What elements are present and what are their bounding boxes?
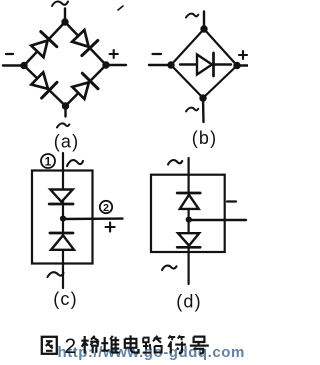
junction dot output (d)	[186, 217, 192, 223]
wire diamond edge bottom-left (b)	[171, 65, 203, 98]
glyph dian (electric)	[125, 335, 139, 352]
caption figure 2 title: hand-drawn CJK glyphs	[42, 335, 209, 353]
svg-text:(d): (d)	[176, 292, 202, 312]
label ~ (top of b)	[186, 14, 198, 18]
junction dot AC-bottom (b)	[199, 94, 206, 101]
glyph hao (number)	[190, 337, 209, 354]
junction dot plus (b)	[233, 62, 240, 69]
svg-text:(b): (b)	[192, 128, 218, 148]
wire arm lower-left	[24, 66, 66, 107]
wire diamond edge bottom-right (b)	[203, 66, 237, 99]
diode D6 (upper, points down)	[50, 190, 72, 202]
label minus (d)	[227, 200, 236, 202]
junction dot output (c)	[60, 216, 66, 222]
wire plus output (c)	[63, 217, 123, 220]
svg-text:2: 2	[103, 202, 109, 214]
svg-text:1: 1	[45, 156, 52, 168]
label minus (a)	[6, 53, 13, 55]
diode D5 (inside b) wire	[180, 63, 231, 65]
svg-text:(c): (c)	[53, 289, 78, 309]
box outline (c)	[32, 171, 93, 264]
wire diamond edge top-left (b)	[171, 29, 204, 65]
label ~ (top of c)	[67, 160, 83, 166]
label plus (b)	[239, 51, 247, 59]
wire vertical through (c)	[62, 153, 64, 288]
label ~ (bottom of b)	[186, 108, 198, 112]
wire plus lead (a)	[106, 64, 126, 66]
label ~ (bottom of d)	[162, 266, 177, 270]
svg-text:2: 2	[65, 335, 77, 358]
wire AC-bottom lead (a)	[64, 106, 66, 117]
wire vertical through (d)	[188, 158, 190, 284]
wire minus lead (b)	[149, 64, 171, 66]
wire plus lead (b)	[237, 64, 248, 66]
junction dot minus (a)	[20, 62, 27, 69]
diode D2 (upper-right arm, points to + node)	[70, 28, 98, 55]
label minus (b)	[153, 53, 162, 55]
label plus (c)	[106, 222, 115, 231]
junction dot AC-top (a)	[61, 18, 68, 25]
glyph dui (stack)	[101, 336, 119, 353]
diode D3 (lower-left arm, points to AC bottom)	[30, 71, 57, 98]
glyph fu (symbol radical)	[168, 335, 186, 353]
glyph tu (figure)	[42, 337, 57, 354]
node AC-top lead wire	[64, 9, 66, 23]
wire minus lead (a)	[3, 64, 24, 66]
diode D1 (upper-left arm, points to AC top)	[29, 32, 57, 59]
label ~ (top of d)	[168, 160, 182, 164]
diode D9 (lower, points down)	[178, 233, 199, 245]
label circled 2	[100, 201, 112, 213]
label ~ (bottom of a)	[57, 123, 69, 127]
wire arm lower-right	[66, 65, 107, 106]
wire arm upper-left	[24, 22, 65, 66]
diode D8 (upper, points up)	[177, 192, 200, 195]
label ~ (bottom of c)	[48, 272, 64, 277]
svg-text:(a): (a)	[54, 131, 80, 151]
junction dot minus (b)	[167, 61, 174, 68]
glyph lu (road)	[143, 336, 162, 353]
label ~ (top of a)	[52, 1, 68, 6]
wire arm upper-right	[65, 22, 106, 65]
glyph qiao (bridge)	[81, 336, 99, 354]
junction dot AC-top (b)	[200, 25, 207, 32]
diode D4 (lower-right arm, points to + node)	[71, 73, 98, 100]
label plus (a)	[110, 50, 118, 58]
box outline (d)	[151, 175, 225, 252]
junction dot plus (a)	[102, 61, 109, 68]
diode D7 (lower, points up)	[50, 232, 73, 235]
stray tick mark	[118, 6, 123, 10]
junction dot AC-bottom (a)	[62, 102, 69, 109]
wire diamond edge top-right (b)	[204, 29, 237, 66]
wire AC-bottom lead (b)	[202, 98, 205, 122]
wire minus output (d)	[189, 219, 246, 221]
diode D5 triangle and bar	[197, 55, 212, 75]
label circled 1	[41, 154, 55, 168]
wire AC-top lead (b)	[203, 12, 205, 30]
